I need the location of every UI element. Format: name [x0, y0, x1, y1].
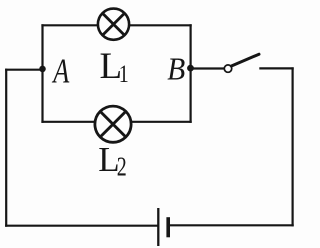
wire node B to switch pivot — [190, 67, 225, 69]
svg-text:1: 1 — [119, 60, 129, 88]
lamp L2 — [95, 106, 131, 142]
svg-text:2: 2 — [117, 153, 127, 183]
wire bottom right (battery to right corner) — [170, 224, 294, 226]
lamp L1 — [98, 9, 129, 40]
wire left side vertical — [5, 69, 7, 227]
wire bottom left (to battery) — [5, 225, 158, 227]
wire node A to left side — [5, 69, 43, 71]
switch lever (open) — [231, 54, 259, 66]
wire right branch vertical (B branch) — [190, 24, 192, 123]
wire bottom rail of parallel section — [41, 121, 191, 123]
svg-text:B: B — [167, 51, 185, 86]
wire right side vertical — [292, 67, 294, 226]
switch pivot circle — [224, 65, 231, 72]
wire switch to right corner — [259, 67, 293, 69]
wire top rail of parallel section — [41, 24, 191, 26]
svg-text:A: A — [52, 51, 70, 91]
wire left branch vertical (A branch) — [41, 24, 43, 123]
battery negative plate (short thick) — [166, 217, 170, 237]
node A — [39, 66, 46, 73]
battery positive plate (long thin) — [157, 208, 159, 246]
node B — [187, 65, 194, 72]
